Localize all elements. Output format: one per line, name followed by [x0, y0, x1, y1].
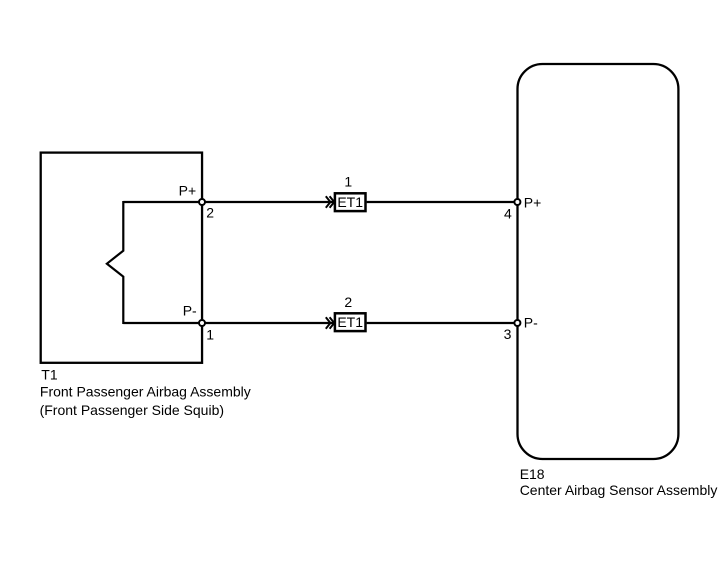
component box T1 (Front Passenger Airbag Assembly) [41, 153, 202, 363]
wire: squib loop bottom (squib to T1 pin 1) [123, 322, 202, 324]
wire: connector ET1-2 to E18 pin 3 [367, 322, 518, 324]
svg-text:1: 1 [206, 327, 214, 343]
node: E18 pin 3 junction [514, 320, 520, 326]
svg-text:3: 3 [504, 326, 512, 342]
wire: T1 pin 1 to connector ET1-2 [202, 322, 334, 324]
node: E18 pin 4 junction [514, 199, 520, 205]
svg-text:ET1: ET1 [337, 194, 363, 210]
svg-text:Center Airbag Sensor Assembly: Center Airbag Sensor Assembly [520, 482, 718, 498]
wire: T1 pin 2 to connector ET1-1 [202, 201, 334, 203]
svg-text:P-: P- [524, 314, 538, 330]
connector ET1 #2 chevron [326, 317, 334, 328]
connector ET1 #1 chevron [326, 196, 334, 207]
svg-text:2: 2 [344, 294, 352, 310]
wire: connector ET1-1 to E18 pin 4 [367, 201, 518, 203]
svg-text:1: 1 [344, 174, 352, 190]
svg-text:2: 2 [206, 205, 214, 221]
node: T1 pin 1 junction [199, 320, 205, 326]
svg-text:P-: P- [183, 303, 197, 319]
svg-text:(Front Passenger Side Squib): (Front Passenger Side Squib) [40, 402, 224, 418]
squib resistor (front passenger side squib) [107, 201, 123, 324]
svg-text:T1: T1 [41, 367, 58, 383]
wire: squib loop top (T1 pin 2 to squib) [123, 201, 202, 203]
component box E18 (Center Airbag Sensor Assembly) [518, 64, 679, 459]
connector ET1 #1 box [335, 193, 366, 211]
svg-text:P+: P+ [524, 195, 542, 211]
svg-text:4: 4 [504, 205, 512, 221]
node: T1 pin 2 junction [199, 199, 205, 205]
connector ET1 #2 box [335, 313, 366, 331]
svg-text:Front Passenger Airbag Assembl: Front Passenger Airbag Assembly [40, 383, 251, 399]
svg-text:ET1: ET1 [337, 314, 363, 330]
svg-text:E18: E18 [520, 466, 545, 482]
svg-text:P+: P+ [179, 182, 197, 198]
